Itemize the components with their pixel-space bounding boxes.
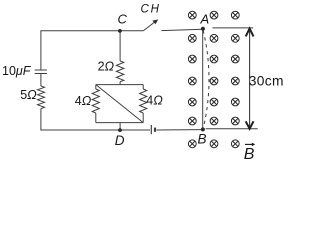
node C	[118, 29, 122, 33]
resistor R3 4-ohm left branch	[92, 85, 99, 123]
dashed displaced-rod curve from A to B	[203, 31, 209, 129]
svg-text:D: D	[115, 133, 125, 148]
node A	[201, 27, 205, 31]
resistor R2 2-ohm zigzag	[116, 61, 123, 82]
wire: top from left corner to switch	[40, 30, 143, 32]
node D	[118, 128, 122, 132]
svg-text:5Ω: 5Ω	[20, 88, 37, 102]
wire: bridge rectangle top side	[96, 84, 143, 86]
battery E1	[151, 125, 155, 134]
svg-text:30cm: 30cm	[249, 73, 284, 88]
wire: bottom from left corner to battery	[40, 129, 150, 131]
svg-text:C: C	[118, 11, 128, 26]
svg-text:4Ω: 4Ω	[75, 94, 92, 108]
resistor R4 4-ohm right branch	[140, 85, 147, 123]
svg-text:A: A	[200, 11, 210, 26]
resistor R1 5-ohm zigzag	[38, 86, 45, 109]
magnetic field region: 7 rows x 3 cols of B-into-page symbols	[188, 11, 239, 148]
svg-text:B: B	[198, 132, 207, 147]
svg-text:CH: CH	[141, 3, 161, 15]
svg-text:4Ω: 4Ω	[146, 94, 163, 108]
svg-text:2Ω: 2Ω	[98, 59, 115, 73]
wire: top rail right of A	[213, 27, 254, 29]
wire: bridge bottom center stub to node D	[119, 123, 121, 130]
30cm dimension arrow	[246, 29, 254, 129]
capacitor C1 10uF plates	[35, 70, 47, 74]
switch arrowhead	[152, 19, 158, 24]
wire: 5-ohm to bottom-left corner	[40, 109, 42, 130]
wire: bottom rail right of B	[206, 128, 258, 130]
node B	[201, 127, 205, 131]
wire: 2-ohm to bridge top	[119, 82, 121, 85]
wire: bridge diagonal top-left to bottom-right	[96, 85, 143, 123]
svg-text:10μF: 10μF	[2, 64, 32, 78]
wire: node C down to 2-ohm resistor	[119, 31, 121, 61]
wire: bridge rectangle bottom side	[96, 122, 143, 124]
wire: left vertical top segment down to capacitor	[40, 31, 42, 70]
label B vector	[244, 143, 255, 163]
wire: conducting rod AB	[202, 29, 204, 129]
wire: switch to node A	[161, 29, 202, 30]
wire: capacitor to 5-ohm resistor	[40, 74, 42, 87]
svg-text:B: B	[244, 146, 255, 163]
switch CH blade	[143, 20, 157, 31]
wire: battery to node B	[156, 129, 202, 131]
